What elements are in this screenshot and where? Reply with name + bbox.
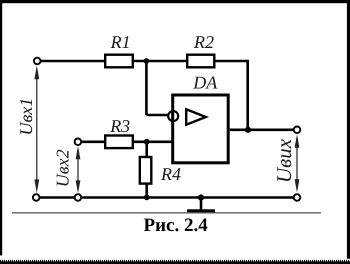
node junction R3-R4 [144,139,150,145]
op-amp DA body [173,95,229,163]
wire R4 bottom [145,183,148,197]
dimension arrow Uvx1 [34,65,39,193]
wire R3 to op-amp [134,141,172,144]
node junction feedback-output [245,127,251,133]
terminal output [294,127,301,134]
svg-text:R2: R2 [193,32,214,52]
op-amp DA triangle [186,109,206,124]
svg-text:R3: R3 [109,116,130,136]
svg-text:Uвх1: Uвх1 [16,98,36,136]
op-amp U1 inverting input circle [168,111,178,121]
wire inverting input vertical [145,61,148,115]
bottom rail wire [40,196,74,199]
ground bar [187,209,215,213]
svg-text:Рис. 2.4: Рис. 2.4 [143,215,208,236]
wire inverting input horizontal [146,114,168,117]
wire input2 to R3 [82,141,105,144]
caption rule [12,212,321,213]
wire R4 top [145,142,148,158]
svg-text:R4: R4 [160,164,181,184]
resistor R1 [105,55,133,68]
wire op-amp output [230,129,293,132]
page border left [0,0,2,255]
label Uvyx [272,138,296,183]
page border top [0,0,350,3]
svg-text:Uвх2: Uвх2 [53,149,73,187]
wire R2 to feedback corner [214,61,247,130]
svg-text:Uвих: Uвих [272,138,296,183]
resistor R4 [140,157,152,184]
terminal input1 [34,58,41,65]
label Uvx1 [16,98,36,136]
label Uvx2 [53,149,73,187]
svg-text:R1: R1 [110,32,131,52]
dimension arrow Uvx2 [76,146,81,193]
node junction R1-R2-inverting [144,58,150,64]
resistor R3 [105,136,133,149]
ground stub [200,198,203,211]
wire R1 to R2 [134,60,187,63]
terminal ground input1 [33,194,40,201]
terminal input2 [75,139,82,146]
resistor R2 [187,55,214,68]
bottom rail wire 2 [82,196,293,199]
dimension arrow Uvyx [295,134,300,192]
wire top rail input1 to R1 [41,60,105,63]
terminal ground output [294,194,301,201]
page border right [347,0,350,259]
node junction ground stub [198,194,204,200]
node junction R4-ground rail [144,194,150,200]
svg-text:DA: DA [192,73,218,93]
page border bottom torn edge [0,261,350,264]
terminal ground input2 [75,194,82,201]
